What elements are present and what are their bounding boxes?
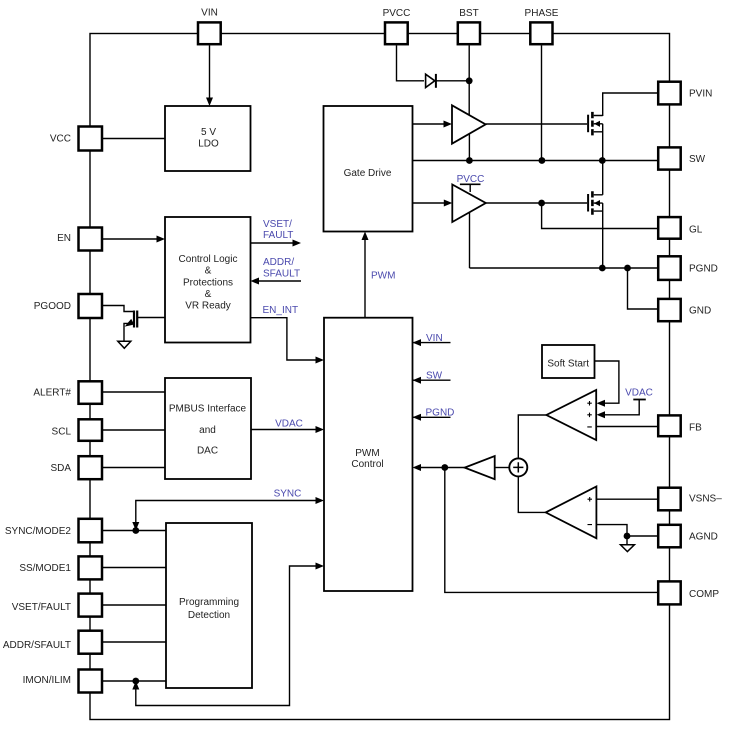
block Programming Detection — [166, 523, 252, 688]
wire PVCC label tap to low-side driver — [469, 184, 471, 192]
wire bottom FET drain to SW line — [602, 161, 604, 195]
wire SYNC/MODE2 pin to Programming Detection — [103, 530, 167, 532]
svg-text:PWM: PWM — [371, 271, 395, 282]
wire VIN pin to 5V LDO — [209, 46, 211, 101]
svg-text:SYNC: SYNC — [274, 489, 302, 500]
svg-text:PVCC: PVCC — [457, 174, 485, 185]
svg-text:ALERT#: ALERT# — [33, 388, 71, 399]
svg-text:COMP: COMP — [689, 589, 719, 600]
svg-text:SYNC/MODE2: SYNC/MODE2 — [5, 526, 72, 537]
wire ALERT# pin to PMBUS block — [103, 391, 165, 393]
wire PGND line to PGND pin — [470, 267, 658, 269]
svg-text:ADDR/SFAULT: ADDR/SFAULT — [3, 640, 71, 651]
op-amp U2 low-side gate driver — [452, 185, 486, 223]
wire GL branch from gate node to GL pin — [542, 203, 657, 229]
wire PVCC label underline — [460, 183, 481, 185]
svg-text:GL: GL — [689, 225, 703, 236]
pin VIN — [198, 22, 221, 44]
wire diode cathode to BST junction — [436, 80, 469, 82]
pin GL — [658, 217, 681, 239]
node SW line driver return junction — [466, 157, 473, 164]
wire Gate Drive to high-side driver input — [413, 123, 446, 125]
wire VDAC tap to error amp second + input — [605, 400, 639, 415]
node SW line FET junction — [599, 157, 606, 164]
transistor Q2 low-side FET — [588, 191, 603, 215]
svg-text:VR Ready: VR Ready — [185, 301, 231, 312]
wire VSET/FAULT pin to Programming Detection — [103, 604, 167, 606]
block 5V LDO — [165, 106, 251, 171]
svg-text:LDO: LDO — [198, 138, 219, 149]
pin ADDR/SFAULT — [79, 631, 103, 654]
wire Gate Drive to low-side driver input — [413, 202, 446, 204]
svg-text:SW: SW — [689, 154, 706, 165]
svg-text:PGOOD: PGOOD — [34, 301, 71, 312]
svg-text:&: & — [205, 289, 212, 300]
svg-text:Control: Control — [351, 459, 383, 470]
wire ADDR/SFAULT input to Control Logic — [257, 280, 301, 282]
wire VDAC label underline — [633, 399, 646, 401]
node SYNC/MODE2 junction — [132, 527, 139, 534]
wire high-side driver return to SW line — [468, 133, 470, 161]
ground symbol analog ground — [621, 545, 635, 552]
svg-text:Programming: Programming — [179, 597, 239, 608]
pin SYNC/MODE2 — [79, 519, 103, 543]
transistor Q1 high-side FET — [588, 112, 603, 135]
svg-text:SCL: SCL — [52, 427, 72, 438]
ground symbol below PGOOD FET — [118, 341, 131, 348]
wire VSNS- pin to VSNS amp + input — [596, 498, 657, 500]
pin ALERT# — [79, 381, 103, 404]
pin PGND — [658, 256, 681, 280]
wire PWM from PWM Control to Gate Drive — [364, 238, 366, 318]
op-amp U4 VSNS sense amplifier — [546, 487, 597, 539]
svg-text:AGND: AGND — [689, 532, 718, 543]
wire low-side driver return to PGND line — [469, 212, 471, 268]
wire COMP junction down to COMP pin — [445, 468, 657, 593]
pin IMON/ILIM — [79, 670, 103, 693]
svg-text:SS/MODE1: SS/MODE1 — [19, 563, 71, 574]
svg-text:PWM: PWM — [355, 448, 379, 459]
pin PHASE — [530, 22, 552, 44]
chip outline border — [90, 34, 670, 720]
pin SDA — [79, 456, 103, 479]
svg-text:VSET/FAULT: VSET/FAULT — [12, 602, 71, 613]
svg-text:PVIN: PVIN — [689, 89, 712, 100]
pin SW — [658, 147, 681, 169]
svg-text:VSNS–: VSNS– — [689, 494, 722, 505]
wire AGND junction to AGND pin — [627, 535, 657, 537]
svg-text:VSET/: VSET/ — [263, 219, 292, 230]
svg-text:PGND: PGND — [426, 408, 455, 419]
wire EN pin to Control Logic — [103, 238, 158, 240]
node BST diode junction — [466, 77, 473, 84]
block Control Logic Protections VR Ready — [165, 217, 251, 343]
wire VCC pin to 5V LDO — [103, 138, 165, 140]
pin SS/MODE1 — [79, 556, 103, 579]
svg-text:PMBUS Interface: PMBUS Interface — [169, 404, 247, 415]
pin VSET/FAULT — [79, 594, 103, 617]
block PMBUS Interface and DAC — [165, 378, 251, 479]
pin SCL — [79, 419, 103, 441]
wire PHASE pin down to SW line — [541, 46, 543, 161]
svg-text:SW: SW — [426, 371, 443, 382]
svg-text:Gate Drive: Gate Drive — [344, 168, 392, 179]
wire VSET/FAULT output from Control Logic — [251, 242, 295, 244]
wire VSNS amp output to summing node — [518, 475, 545, 512]
svg-text:Soft Start: Soft Start — [547, 358, 589, 369]
svg-text:ADDR/: ADDR/ — [263, 257, 294, 268]
wire top FET drain to PVIN pin — [603, 93, 657, 116]
wire ADDR/SFAULT pin to Programming Detection — [103, 641, 167, 643]
wire error amp output to summing node — [518, 415, 546, 459]
block PWM Control — [324, 318, 413, 591]
wire high-side driver output to top FET gate — [486, 123, 587, 125]
pin AGND — [658, 525, 681, 548]
pin BST — [458, 22, 480, 44]
wire SYNC net from junction to PWM Control — [136, 501, 317, 529]
svg-text:VDAC: VDAC — [625, 388, 653, 399]
wire VSNS amp - input to AGND junction — [596, 525, 627, 536]
svg-text:&: & — [205, 266, 212, 277]
pin PVIN — [658, 82, 681, 105]
wire buffer output to COMP junction and PWM Control — [421, 467, 465, 469]
svg-text:VIN: VIN — [201, 8, 218, 19]
wire SDA pin to PMBUS block — [103, 467, 165, 469]
op-amp U5 buffer — [465, 456, 495, 479]
wire BST pin down to high-side driver — [468, 46, 470, 117]
wire PGOOD pin to pulldown FET drain — [103, 306, 133, 312]
pin GND — [658, 299, 681, 321]
node IMON/ILIM junction — [132, 678, 139, 685]
pin EN — [79, 228, 103, 251]
wire top FET source/body to SW line — [602, 124, 604, 161]
svg-text:DAC: DAC — [197, 446, 218, 457]
svg-text:FAULT: FAULT — [263, 230, 293, 241]
wire EN_INT from Control Logic to PWM Control — [251, 318, 318, 360]
pin FB — [658, 415, 681, 436]
wire PVCC pin down to bootstrap diode — [397, 46, 425, 81]
diode D1 bootstrap — [426, 74, 435, 87]
wire Soft Start to error amp first + input — [594, 361, 619, 403]
node COMP junction — [441, 464, 448, 471]
wire VDAC from PMBUS to PWM Control — [251, 429, 317, 431]
svg-text:SFAULT: SFAULT — [263, 269, 300, 280]
svg-text:PVCC: PVCC — [383, 8, 411, 19]
wire SS/MODE1 pin to Programming Detection — [103, 567, 167, 569]
pin COMP — [658, 581, 681, 604]
node AGND junction — [624, 533, 631, 540]
wire IMON/ILIM pin to Programming Detection — [103, 680, 167, 682]
transistor Q3 PGOOD open-drain FET — [124, 311, 165, 342]
pin VCC — [79, 127, 103, 151]
svg-text:Detection: Detection — [188, 610, 230, 621]
block Gate Drive — [324, 106, 413, 232]
pin PVCC — [385, 22, 408, 44]
node low-side gate GL junction — [538, 200, 545, 207]
op-amp U3 error amplifier — [546, 390, 596, 440]
svg-text:BST: BST — [459, 8, 478, 19]
wire FB pin to error amp - input — [596, 426, 657, 428]
svg-text:Protections: Protections — [183, 277, 233, 288]
svg-text:VDAC: VDAC — [275, 419, 303, 430]
wire SW stub into PWM Control — [413, 379, 451, 381]
svg-text:VCC: VCC — [50, 134, 71, 145]
svg-text:EN: EN — [57, 233, 71, 244]
node PGND line FET junction — [599, 265, 606, 272]
svg-text:SDA: SDA — [50, 463, 71, 474]
wire summing node to buffer — [495, 467, 511, 469]
wire low-side driver output to bottom FET gate — [486, 202, 587, 204]
svg-text:GND: GND — [689, 306, 711, 317]
svg-text:IMON/ILIM: IMON/ILIM — [23, 675, 71, 686]
wire AGND junction to analog ground symbol — [626, 536, 628, 545]
wire IMON/ILIM junction loop to PWM Control — [136, 566, 317, 706]
svg-text:FB: FB — [689, 423, 702, 434]
svg-text:EN_INT: EN_INT — [263, 305, 299, 316]
svg-text:VIN: VIN — [426, 333, 443, 344]
block Soft Start — [542, 345, 595, 378]
svg-text:PHASE: PHASE — [525, 8, 559, 19]
op-amp U1 high-side gate driver — [452, 105, 486, 143]
wire SCL pin to PMBUS block — [103, 429, 165, 431]
wire SW line from Gate Drive to SW pin — [413, 160, 658, 162]
pin VSNS- — [658, 488, 681, 511]
wire GND branch from PGND line to GND pin — [628, 268, 658, 309]
pin PGOOD — [79, 294, 103, 318]
node summing junction — [509, 458, 527, 476]
wire PGND stub into PWM Control — [413, 416, 451, 418]
wire bottom FET source/body to PGND line — [602, 203, 604, 268]
svg-text:5 V: 5 V — [201, 127, 216, 138]
svg-text:Control Logic: Control Logic — [179, 254, 238, 265]
node SW line PHASE junction — [539, 157, 546, 164]
node PGND line GND junction — [624, 265, 631, 272]
wire VIN stub into PWM Control — [413, 342, 451, 344]
svg-text:and: and — [199, 425, 216, 436]
svg-text:PGND: PGND — [689, 264, 718, 275]
